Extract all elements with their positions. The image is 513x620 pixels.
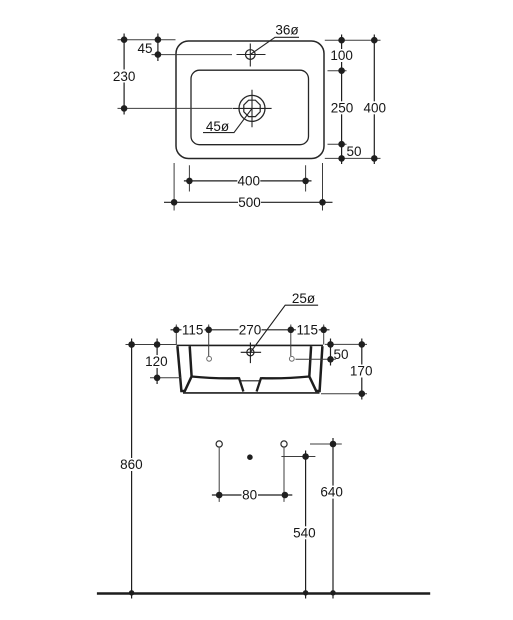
- dim line 500 horizontal (bottom): [164, 201, 333, 203]
- floor line: [97, 592, 430, 595]
- basin rim line (elevation): [177, 344, 324, 346]
- waste recess right side: [257, 377, 262, 391]
- svg-text:640: 640: [320, 485, 343, 500]
- dimension dots elevation: [128, 327, 365, 398]
- leader line 36ø: [250, 37, 299, 54]
- waste hole 45ø outer circle: [239, 95, 265, 121]
- extension: right fixing hole vertical: [283, 448, 285, 502]
- extension: left overflow hole up to dim: [208, 325, 210, 357]
- extension: right rim corner up to dim: [323, 325, 325, 345]
- extension: outer rim verticals for 500 dim: [174, 163, 322, 211]
- svg-text:400: 400: [364, 101, 387, 116]
- dim line 400 vertical (right): [373, 35, 375, 165]
- svg-text:170: 170: [350, 364, 373, 379]
- dimension lines installation: [132, 339, 333, 599]
- waste recess inner edge: [241, 380, 260, 382]
- dim line 640: [332, 438, 334, 599]
- overflow hole right: [289, 356, 294, 361]
- svg-text:400: 400: [238, 174, 261, 189]
- svg-text:115: 115: [182, 322, 204, 337]
- svg-text:45ø: 45ø: [206, 119, 229, 134]
- svg-text:25ø: 25ø: [292, 291, 315, 306]
- dim line 45 (left): [157, 34, 159, 62]
- svg-text:540: 540: [293, 525, 316, 540]
- extension: rim level to left (860/120 dims): [126, 344, 177, 346]
- svg-text:115: 115: [297, 322, 319, 337]
- dim line 540: [305, 451, 307, 599]
- svg-text:50: 50: [334, 347, 349, 362]
- dim line 860: [131, 339, 133, 599]
- extension: inner bowl bottom to right: [328, 143, 347, 145]
- extension: left fixing hole vertical: [218, 448, 220, 502]
- bowl bottom left: [192, 377, 239, 379]
- text labels installation: [119, 457, 344, 540]
- basin outer rim (plan): [176, 41, 324, 159]
- waste recess left side: [239, 377, 244, 391]
- tap hole crosshair (elevation): [241, 343, 261, 364]
- tap hole 36ø circle: [246, 50, 256, 60]
- svg-text:270: 270: [239, 322, 262, 337]
- dim line 170 (right): [361, 339, 363, 400]
- right wall section: [309, 346, 322, 391]
- svg-text:230: 230: [113, 69, 136, 84]
- extension: inner bowl verticals for 400 dim: [189, 165, 305, 191]
- extension lines plan: [118, 40, 381, 211]
- extension: waste centre to left: [118, 107, 233, 109]
- svg-text:80: 80: [242, 488, 257, 503]
- waste outlet dot: [247, 454, 253, 460]
- extension: fixing hole level to right (640 dim): [310, 443, 342, 445]
- extension: tap hole centre to left: [152, 54, 233, 56]
- dim chain line 100/250/50 (right): [341, 35, 343, 165]
- leader line 25ø: [250, 305, 318, 352]
- text labels plan: [113, 22, 386, 210]
- dimension dots plan: [121, 36, 378, 205]
- fixing hole right: [281, 441, 287, 447]
- overflow hole left: [207, 356, 212, 361]
- basin bottom line: [183, 392, 320, 394]
- svg-text:500: 500: [238, 195, 261, 210]
- extension lines elevation: [126, 325, 368, 394]
- leader line 45ø: [203, 108, 252, 132]
- svg-text:250: 250: [331, 101, 354, 116]
- svg-text:45: 45: [137, 41, 152, 56]
- waste hole inner octagon: [244, 100, 260, 116]
- basin inner bowl (plan): [191, 70, 309, 145]
- dimension lines plan: [124, 34, 374, 203]
- tap hole crosshair: [237, 44, 266, 67]
- extension: bowl inner depth to left (120 dim): [150, 377, 181, 379]
- extension: rim top edge to left dims: [118, 39, 176, 41]
- dimension lines elevation: [157, 330, 362, 400]
- extension: rim bottom edge to right dims: [325, 157, 381, 159]
- dim line 120: [156, 339, 158, 385]
- extension: right overflow hole up to dim: [290, 325, 292, 357]
- extension: basin bottom to right (170 dim): [321, 393, 367, 395]
- svg-text:860: 860: [120, 457, 143, 472]
- bowl bottom right: [261, 377, 309, 379]
- dim line 230 (left): [123, 34, 125, 115]
- extension: outlet level to right (540 dim): [281, 456, 315, 458]
- extension: rim top edge to right dims: [325, 39, 381, 41]
- dim line 115/270/115 (top): [171, 329, 330, 331]
- dim line 400 horizontal (bottom): [184, 180, 312, 182]
- left wall section: [177, 346, 191, 391]
- dimension dots installation: [129, 441, 336, 596]
- svg-text:100: 100: [330, 48, 353, 63]
- extension: left rim corner up to 115 dim: [175, 325, 177, 345]
- text labels elevation: [145, 291, 374, 378]
- tap hole 25ø (elevation): [247, 349, 254, 356]
- dim line 80: [212, 494, 292, 496]
- svg-text:36ø: 36ø: [275, 22, 298, 37]
- svg-text:50: 50: [347, 144, 362, 159]
- fixing hole left: [216, 441, 222, 447]
- extension: overflow level to right (50 dim): [296, 358, 336, 360]
- svg-text:120: 120: [145, 354, 168, 369]
- dim line 50 (right): [330, 339, 332, 366]
- extension: inner bowl top to right: [328, 70, 347, 72]
- waste crosshair: [233, 90, 272, 128]
- extension: rim level to right (50/170 dims): [325, 343, 367, 345]
- extension lines installation: [219, 444, 342, 502]
